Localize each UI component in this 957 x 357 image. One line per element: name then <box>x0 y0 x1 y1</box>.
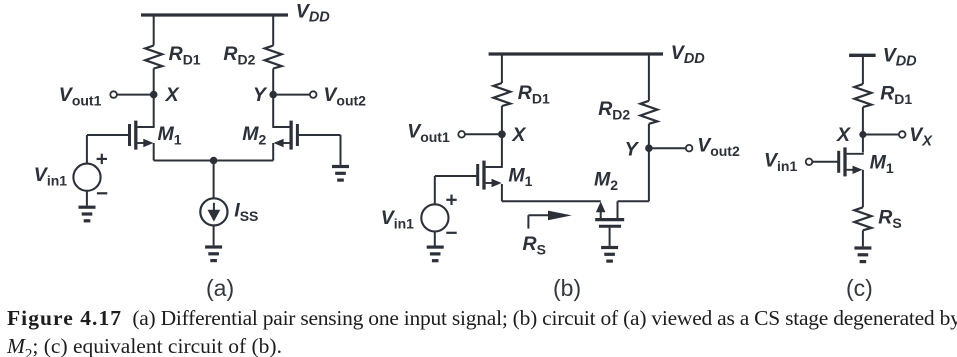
svg-text:ISS: ISS <box>234 200 258 225</box>
svg-text:RD1: RD1 <box>880 83 912 108</box>
svg-text:X: X <box>511 124 526 146</box>
svg-text:Vin1: Vin1 <box>381 207 414 232</box>
svg-text:M1: M1 <box>870 151 894 176</box>
svg-text:M2: M2 <box>242 123 266 148</box>
svg-text:Vin1: Vin1 <box>764 149 797 174</box>
svg-text:M1: M1 <box>158 123 182 148</box>
svg-text:RD2: RD2 <box>223 43 255 67</box>
svg-text:RS: RS <box>523 233 546 257</box>
svg-text:Vout1: Vout1 <box>407 121 450 146</box>
svg-text:X: X <box>836 124 851 146</box>
svg-text:VDD: VDD <box>296 1 330 26</box>
svg-text:Y: Y <box>253 84 268 106</box>
svg-text:RS: RS <box>878 206 901 231</box>
svg-text:VDD: VDD <box>671 42 705 67</box>
svg-text:M2: M2 <box>594 169 618 194</box>
svg-text:Vout2: Vout2 <box>323 84 366 109</box>
svg-text:VDD: VDD <box>883 44 917 69</box>
svg-text:(a): (a) <box>206 275 234 301</box>
svg-text:VX: VX <box>909 124 933 150</box>
svg-text:Vin1: Vin1 <box>34 164 67 189</box>
svg-text:X: X <box>165 84 180 106</box>
svg-text:M1: M1 <box>508 165 532 190</box>
svg-text:(b): (b) <box>553 275 581 301</box>
svg-text:RD1: RD1 <box>169 43 201 67</box>
svg-text:RD1: RD1 <box>518 82 550 107</box>
svg-text:Vout2: Vout2 <box>697 134 740 159</box>
svg-text:(c): (c) <box>846 275 873 301</box>
svg-text:RD2: RD2 <box>598 98 630 123</box>
svg-text:Vout1: Vout1 <box>59 84 102 109</box>
svg-text:Y: Y <box>625 139 640 161</box>
